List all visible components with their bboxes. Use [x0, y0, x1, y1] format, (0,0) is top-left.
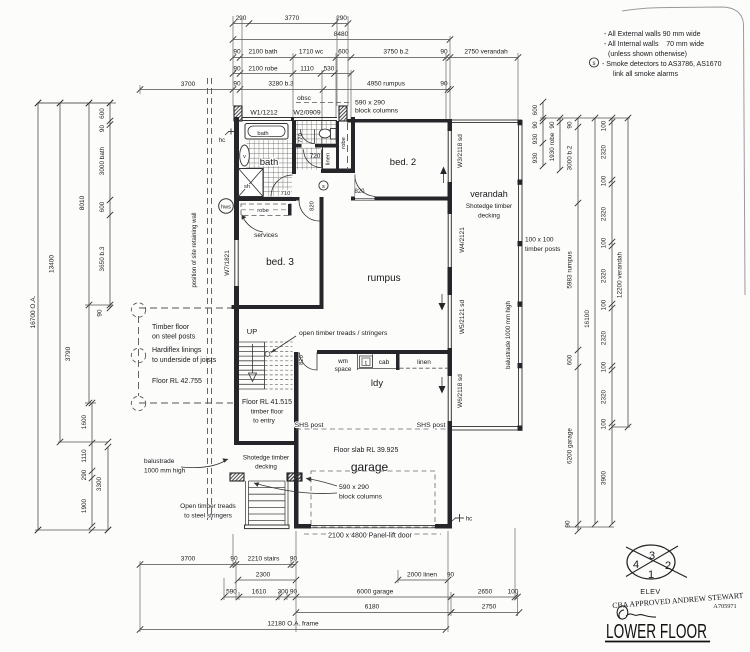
- svg-text:Open timber treads: Open timber treads: [180, 503, 236, 510]
- svg-text:820: 820: [354, 189, 365, 195]
- bed3 bottom wall: [232, 305, 324, 309]
- block column top-mid 590x290: [339, 106, 347, 121]
- dim row 90|2100 bath|1710 wc|600|3750 b.2|90|2750 verandah: [233, 57, 518, 59]
- verandah posts: [518, 120, 523, 125]
- svg-text:open timber treads / stringers: open timber treads / stringers: [299, 330, 388, 337]
- svg-text:2100 bath: 2100 bath: [249, 49, 278, 56]
- bed2 bottom / rumpus top wall post: [351, 197, 355, 201]
- svg-text:90: 90: [567, 121, 574, 129]
- svg-text:W2/0909: W2/0909: [293, 110, 320, 117]
- svg-text:- Smoke detectors to AS3786, A: - Smoke detectors to AS3786, AS1670: [602, 61, 722, 68]
- svg-text:770: 770: [298, 133, 304, 143]
- svg-text:90: 90: [233, 66, 241, 73]
- svg-text:2100 x 4800 Panel-lift door: 2100 x 4800 Panel-lift door: [328, 533, 412, 540]
- svg-text:1110: 1110: [81, 449, 88, 463]
- wc door arc: [301, 130, 315, 144]
- svg-text:SHS post: SHS post: [417, 422, 446, 429]
- svg-text:W3/2118 sd: W3/2118 sd: [457, 134, 464, 168]
- svg-text:90: 90: [233, 49, 241, 56]
- svg-text:90: 90: [440, 49, 448, 56]
- svg-text:2000 linen: 2000 linen: [407, 572, 437, 579]
- svg-text:bed. 3: bed. 3: [266, 257, 294, 268]
- svg-text:timber floor: timber floor: [251, 409, 284, 416]
- dim row 2300: [238, 579, 296, 581]
- svg-text:W7/1821: W7/1821: [224, 250, 231, 276]
- dim row 2000 linen|90: [398, 579, 448, 581]
- svg-text:services: services: [254, 232, 279, 239]
- svg-text:2320: 2320: [601, 330, 608, 345]
- svg-text:W4/2121: W4/2121: [459, 227, 466, 253]
- stair-garage west wall: [294, 352, 299, 528]
- svg-text:6180: 6180: [365, 604, 380, 611]
- svg-text:obsc: obsc: [297, 95, 311, 102]
- bed2 top wall: [347, 119, 452, 123]
- services leader: [243, 217, 264, 232]
- svg-text:block columns: block columns: [339, 494, 383, 501]
- toilet: [319, 129, 331, 138]
- window W1/1212: [242, 117, 291, 119]
- svg-text:90: 90: [549, 121, 556, 129]
- svg-text:1: 1: [648, 569, 654, 581]
- svg-text:balustrade: balustrade: [144, 458, 175, 465]
- svg-text:2750 verandah: 2750 verandah: [464, 49, 508, 56]
- rumpus window arrow 2: [441, 377, 443, 386]
- elevation marker: [627, 545, 675, 579]
- svg-text:s: s: [322, 184, 325, 190]
- svg-text:3300: 3300: [96, 476, 103, 491]
- svg-text:3000 b.2: 3000 b.2: [567, 145, 574, 170]
- svg-text:sh: sh: [244, 184, 250, 190]
- window W5/2121 sd: [447, 295, 449, 348]
- garage door opening lines: [311, 525, 435, 527]
- ldy door arc: [300, 353, 318, 371]
- svg-text:rumpus: rumpus: [367, 273, 400, 284]
- svg-text:720: 720: [310, 153, 321, 160]
- svg-text:robe: robe: [341, 137, 347, 149]
- bath tiled floor: [247, 140, 293, 197]
- ldy top wall: [317, 350, 452, 354]
- svg-text:600: 600: [567, 354, 574, 365]
- svg-text:590 x 290: 590 x 290: [355, 100, 385, 107]
- dim row 12180 O.A. frame: [140, 629, 446, 631]
- svg-text:600: 600: [99, 108, 106, 119]
- svg-text:2650: 2650: [478, 589, 493, 596]
- svg-text:1930 robe: 1930 robe: [549, 132, 556, 161]
- bath-wc divider wall: [292, 121, 296, 174]
- svg-text:100: 100: [601, 361, 608, 372]
- dim 8010 / 3790: [88, 103, 90, 403]
- svg-text:290: 290: [236, 15, 247, 22]
- svg-text:wm: wm: [337, 358, 348, 365]
- svg-text:90: 90: [290, 589, 298, 596]
- left dim connectors: [85, 304, 113, 306]
- site retaining wall dashed lines: [207, 78, 209, 520]
- svg-text:on steel posts: on steel posts: [152, 334, 196, 341]
- svg-text:to entry: to entry: [253, 418, 275, 425]
- stair direction arrow: [252, 344, 254, 373]
- verandah top edge: [452, 119, 522, 121]
- signature: [617, 606, 656, 619]
- svg-text:2320: 2320: [601, 144, 608, 159]
- dim 16700 O.A.: [37, 103, 39, 530]
- svg-text:decking: decking: [478, 213, 500, 220]
- svg-text:3000 bath: 3000 bath: [99, 146, 106, 175]
- garage bottom wall left: [294, 524, 311, 529]
- block column leaders: [306, 479, 337, 487]
- bottom extension lines: [139, 561, 141, 632]
- svg-text:W5/2121 sd: W5/2121 sd: [459, 300, 466, 335]
- left exterior wall lower: [234, 286, 239, 445]
- approval stamp border top-right: [622, 7, 745, 295]
- svg-text:3700: 3700: [181, 556, 196, 563]
- block column garage: [288, 473, 302, 481]
- svg-text:600: 600: [338, 49, 349, 56]
- svg-text:2320: 2320: [601, 206, 608, 221]
- svg-text:hws: hws: [221, 205, 231, 211]
- svg-text:6000 garage: 6000 garage: [357, 589, 394, 596]
- dim row 2750: [451, 612, 519, 614]
- svg-text:3280 b.3: 3280 b.3: [268, 81, 294, 88]
- bath tub: [245, 124, 288, 140]
- svg-text:12180 O.A. frame: 12180 O.A. frame: [267, 621, 319, 628]
- dim row 3700|90|2210 stairs|90: [140, 564, 295, 566]
- svg-text:Shotedge timber: Shotedge timber: [243, 455, 289, 462]
- garage right wall: [448, 421, 453, 527]
- svg-text:4: 4: [633, 559, 639, 571]
- svg-text:600: 600: [532, 104, 539, 115]
- entry bottom wall: [234, 441, 294, 445]
- svg-text:3650 b.3: 3650 b.3: [99, 246, 106, 271]
- svg-text:linen: linen: [417, 359, 431, 366]
- svg-text:2: 2: [665, 560, 671, 572]
- svg-text:block columns: block columns: [355, 108, 399, 115]
- bed2 robe dashed: [347, 123, 349, 170]
- window W3/2118 sd: [447, 131, 449, 182]
- block column entry right: [287, 473, 301, 481]
- svg-text:1000 mm high: 1000 mm high: [144, 468, 186, 475]
- svg-text:s: s: [593, 61, 596, 67]
- bed2 door arc 820: [355, 175, 375, 197]
- svg-text:90: 90: [233, 81, 241, 88]
- bed3 door stub wall: [294, 197, 300, 201]
- bed2 door sill lines: [355, 197, 375, 199]
- wc bottom wall stub: [296, 144, 302, 148]
- svg-text:930: 930: [532, 133, 539, 144]
- upper floor dashed outline: [139, 307, 233, 309]
- svg-text:Floor slab RL 39.925: Floor slab RL 39.925: [334, 447, 399, 454]
- svg-text:decking: decking: [255, 464, 277, 471]
- svg-text:1710 wc: 1710 wc: [299, 49, 324, 56]
- svg-text:hc: hc: [219, 138, 225, 144]
- svg-text:2100 robe: 2100 robe: [248, 66, 278, 73]
- svg-text:1610: 1610: [252, 589, 267, 596]
- bed3 robe dashed: [241, 204, 291, 216]
- svg-text:to steel stringers: to steel stringers: [184, 513, 232, 520]
- right dim bottom connector: [566, 526, 614, 528]
- svg-text:2320: 2320: [601, 268, 608, 283]
- svg-text:100: 100: [601, 237, 608, 248]
- svg-text:90: 90: [440, 81, 448, 88]
- svg-text:- All External walls 90 mm wid: - All External walls 90 mm wide: [604, 31, 701, 38]
- external stair treads: [249, 480, 286, 482]
- svg-text:590: 590: [226, 589, 237, 596]
- svg-text:90: 90: [99, 125, 106, 133]
- svg-text:2320: 2320: [601, 389, 608, 404]
- shower: [239, 169, 264, 197]
- svg-text:v: v: [243, 154, 246, 160]
- hall tiled floor: [296, 148, 321, 170]
- dim row 6180: [296, 612, 451, 614]
- svg-text:- All Internal walls 70 mm: - All Internal walls 70 mm wide: [604, 41, 704, 48]
- wall mullion W1-W2: [291, 117, 294, 121]
- svg-text:13400: 13400: [49, 255, 56, 273]
- bath door 720 arc: [304, 150, 322, 168]
- svg-text:A705971: A705971: [713, 603, 736, 610]
- svg-text:100: 100: [601, 418, 608, 429]
- dim row 3700|90|3280 b.3|4950 rumpus|90: [140, 89, 451, 91]
- smoke detector hall: [319, 181, 328, 190]
- svg-text:Floor RL 42.755: Floor RL 42.755: [152, 378, 202, 385]
- svg-text:290: 290: [336, 15, 347, 22]
- dim 16100: [594, 118, 596, 524]
- svg-text:1110: 1110: [300, 66, 314, 73]
- bath door 710 arc: [271, 175, 293, 197]
- svg-text:UP: UP: [247, 327, 257, 336]
- linen left wall: [322, 148, 324, 171]
- svg-text:hc: hc: [466, 517, 472, 523]
- svg-text:ldy: ldy: [371, 378, 383, 389]
- svg-text:930: 930: [532, 152, 539, 163]
- rumpus window arrow 1: [441, 294, 443, 303]
- hws unit: [219, 199, 234, 214]
- svg-text:3: 3: [649, 550, 655, 562]
- dim 13400: [59, 103, 61, 442]
- external stair bottom tread: [245, 525, 290, 529]
- closet divider wall: [396, 354, 400, 370]
- svg-text:3790: 3790: [65, 346, 72, 361]
- bed2 window arrow: [443, 174, 445, 183]
- open timber treads leader: [265, 352, 270, 357]
- cab closet: [357, 354, 359, 370]
- svg-text:bath: bath: [257, 131, 268, 137]
- garage door dashed rect: [311, 471, 435, 527]
- wc right wall: [336, 121, 339, 173]
- svg-text:100: 100: [601, 175, 608, 186]
- vanity: [240, 145, 250, 166]
- block column entry left: [230, 473, 244, 481]
- svg-text:garage: garage: [351, 460, 389, 474]
- svg-text:(unless shown otherwise): (unless shown otherwise): [608, 51, 687, 58]
- svg-text:820: 820: [310, 201, 316, 211]
- left dim connector top: [38, 102, 110, 104]
- svg-text:6200 garage: 6200 garage: [567, 428, 574, 464]
- svg-text:ELEV: ELEV: [640, 587, 660, 596]
- bed3 right wall: [320, 197, 324, 309]
- window W7/1821: [234, 240, 236, 286]
- svg-text:robe: robe: [257, 208, 269, 214]
- svg-text:590 x 290: 590 x 290: [339, 484, 369, 491]
- svg-text:100: 100: [601, 299, 608, 310]
- svg-text:290: 290: [81, 469, 88, 480]
- dim row 90|2100 robe|1110|530: [233, 73, 351, 75]
- obsc dashed line: [296, 102, 350, 104]
- svg-text:3750 b.2: 3750 b.2: [383, 49, 409, 56]
- svg-text:timber posts: timber posts: [525, 246, 561, 253]
- dim 12200 verandah: [627, 118, 629, 427]
- svg-text:90: 90: [97, 309, 104, 317]
- svg-text:100: 100: [601, 120, 608, 131]
- svg-text:space: space: [335, 366, 352, 373]
- block column top-left 590x290: [234, 106, 242, 121]
- dim chain verandah 100/2320 + 3900: [611, 118, 613, 524]
- svg-text:90: 90: [532, 121, 539, 129]
- svg-text:cab: cab: [379, 359, 390, 366]
- svg-text:LOWER FLOOR: LOWER FLOOR: [606, 620, 707, 643]
- svg-text:Hardiflex linings: Hardiflex linings: [152, 347, 202, 354]
- hose cock top: [228, 131, 234, 133]
- svg-text:8010: 8010: [79, 195, 86, 210]
- dim row 590|1610|300|90|6000 garage: [224, 596, 451, 598]
- window W2/0909: [294, 117, 337, 119]
- dim row 290|3770|290: [233, 23, 348, 25]
- garage bottom wall right: [435, 524, 452, 529]
- dim 3300: [107, 447, 109, 530]
- svg-text:100 x 100: 100 x 100: [525, 237, 554, 244]
- dim chain 600|90|3000 bath|600|3650 b.3|90: [109, 103, 111, 308]
- verandah right edge: [518, 120, 520, 430]
- svg-text:530: 530: [324, 66, 335, 73]
- right exterior wall segments: [448, 119, 453, 131]
- svg-text:to underside of joists: to underside of joists: [152, 357, 217, 364]
- svg-text:balustrade 1000 mm high: balustrade 1000 mm high: [506, 301, 512, 369]
- svg-text:verandah: verandah: [470, 189, 508, 199]
- svg-text:position of site retaining wal: position of site retaining wall: [192, 212, 198, 287]
- svg-text:Timber floor: Timber floor: [152, 324, 190, 331]
- dim chain 90|3000 b.2|5983 rumpus|600|6200 garage|90: [577, 118, 579, 531]
- svg-text:4950 rumpus: 4950 rumpus: [367, 81, 406, 88]
- linen bottom wall: [321, 169, 355, 174]
- svg-text:100: 100: [508, 589, 519, 596]
- dim chain 90|1930 robe: [559, 118, 561, 170]
- hose cock garage: [455, 517, 464, 519]
- svg-text:90: 90: [565, 520, 572, 528]
- svg-text:600: 600: [99, 201, 106, 212]
- svg-text:3900: 3900: [601, 470, 608, 485]
- SHS post dashed line: [296, 428, 448, 430]
- svg-text:link all smoke alarms: link all smoke alarms: [613, 71, 678, 78]
- smoke detector note symbol: [589, 58, 598, 67]
- svg-text:Floor RL 41.515: Floor RL 41.515: [242, 399, 292, 406]
- dim row 8480: [233, 39, 450, 41]
- window W4/2121: [447, 214, 449, 267]
- dim chain 600|90|930|930: [542, 102, 544, 166]
- svg-text:W6/2118 sd: W6/2118 sd: [457, 374, 464, 408]
- wc tiled floor: [296, 121, 336, 144]
- right dim connector top: [540, 117, 630, 119]
- left exterior wall upper: [234, 117, 239, 240]
- wc bottom wall: [315, 144, 337, 148]
- svg-text:3770: 3770: [285, 15, 300, 22]
- bed2 left wall: [351, 117, 355, 170]
- svg-text:16700 O.A.: 16700 O.A.: [30, 295, 37, 328]
- svg-text:bed. 2: bed. 2: [390, 157, 416, 168]
- ldy linen closet: [400, 367, 449, 369]
- balustrade leader: [181, 459, 228, 468]
- top extension lines: [232, 16, 234, 106]
- steel post dashed circles: [131, 303, 145, 317]
- svg-text:90: 90: [230, 556, 238, 563]
- bath block bottom wall: [234, 197, 296, 201]
- svg-text:Shotedge timber: Shotedge timber: [466, 203, 512, 210]
- panel lift door dashed: [304, 533, 441, 535]
- svg-text:linen: linen: [326, 153, 332, 165]
- svg-text:2210 stairs: 2210 stairs: [248, 556, 281, 563]
- svg-text:710: 710: [281, 191, 291, 197]
- dim row 2650|100: [451, 596, 518, 598]
- window W6/2118 sd: [447, 376, 449, 421]
- svg-text:W1/1212: W1/1212: [250, 110, 277, 117]
- svg-text:8480: 8480: [334, 31, 349, 38]
- laundry tub: [360, 356, 373, 368]
- svg-text:16100: 16100: [584, 310, 591, 328]
- svg-text:bath: bath: [260, 157, 279, 168]
- svg-text:3700: 3700: [181, 81, 196, 88]
- verandah bottom edge: [452, 426, 522, 428]
- svg-text:5983 rumpus: 5983 rumpus: [567, 251, 574, 288]
- dim chain 1600|1110|290|1900: [91, 403, 93, 526]
- svg-text:2300: 2300: [256, 572, 271, 579]
- svg-text:SHS post: SHS post: [295, 422, 324, 429]
- svg-text:1600: 1600: [81, 414, 88, 429]
- bed2 bottom / rumpus top wall: [375, 197, 453, 201]
- svg-text:12200 verandah: 12200 verandah: [617, 251, 624, 298]
- external stair stringers: [245, 481, 247, 525]
- internal stair treads: [239, 341, 265, 343]
- svg-text:1900: 1900: [81, 498, 88, 513]
- bed3 door arc 820: [299, 201, 320, 222]
- svg-text:2750: 2750: [482, 604, 497, 611]
